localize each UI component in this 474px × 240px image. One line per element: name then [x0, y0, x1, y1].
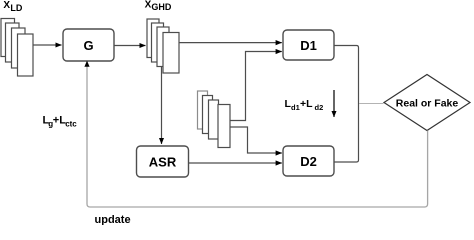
- wire ASR to D2: [189, 162, 282, 164]
- wire X_GHD down to ASR: [161, 66, 163, 144]
- svg-text:D2: D2: [300, 154, 317, 169]
- svg-text:LD: LD: [10, 3, 22, 13]
- wire X_GHD to D1: [179, 42, 282, 44]
- svg-text:d1: d1: [291, 103, 300, 112]
- wire X_LD to G: [33, 44, 62, 46]
- stack X_LD feature maps: [1, 19, 33, 77]
- wire D1 and D2 to junction: [334, 46, 359, 163]
- block D1: [283, 30, 334, 60]
- wire hidden features to D1: [230, 52, 282, 121]
- svg-text:X: X: [3, 0, 10, 11]
- wire feedback loop: [87, 63, 428, 207]
- svg-text:D1: D1: [300, 38, 317, 53]
- svg-text:+L: +L: [300, 98, 313, 110]
- arrowhead into G: [84, 61, 89, 67]
- svg-text:ASR: ASR: [149, 154, 177, 169]
- node X_LD label: [3, 0, 22, 13]
- wire G to X_GHD: [115, 45, 146, 47]
- stack X_GHD feature maps: [147, 19, 179, 73]
- wire hidden features to D2: [230, 127, 282, 153]
- svg-text:G: G: [83, 38, 93, 53]
- label Lg+Lctc: [43, 115, 78, 129]
- svg-text:ctc: ctc: [65, 119, 77, 128]
- block D2: [283, 146, 334, 176]
- svg-text:update: update: [95, 214, 131, 225]
- svg-text:d2: d2: [315, 103, 324, 112]
- stack hidden features: [198, 91, 231, 148]
- svg-text:GHD: GHD: [151, 2, 172, 12]
- decision Real or Fake: [384, 75, 470, 131]
- block G: [63, 29, 114, 61]
- wire junction to diamond: [359, 103, 384, 105]
- svg-text:Real or Fake: Real or Fake: [396, 98, 459, 110]
- node X_GHD label: [145, 0, 172, 12]
- label Ld1+Ld2: [285, 98, 324, 112]
- block ASR: [137, 146, 189, 177]
- arrow Ld1+Ld2 down: [333, 90, 335, 117]
